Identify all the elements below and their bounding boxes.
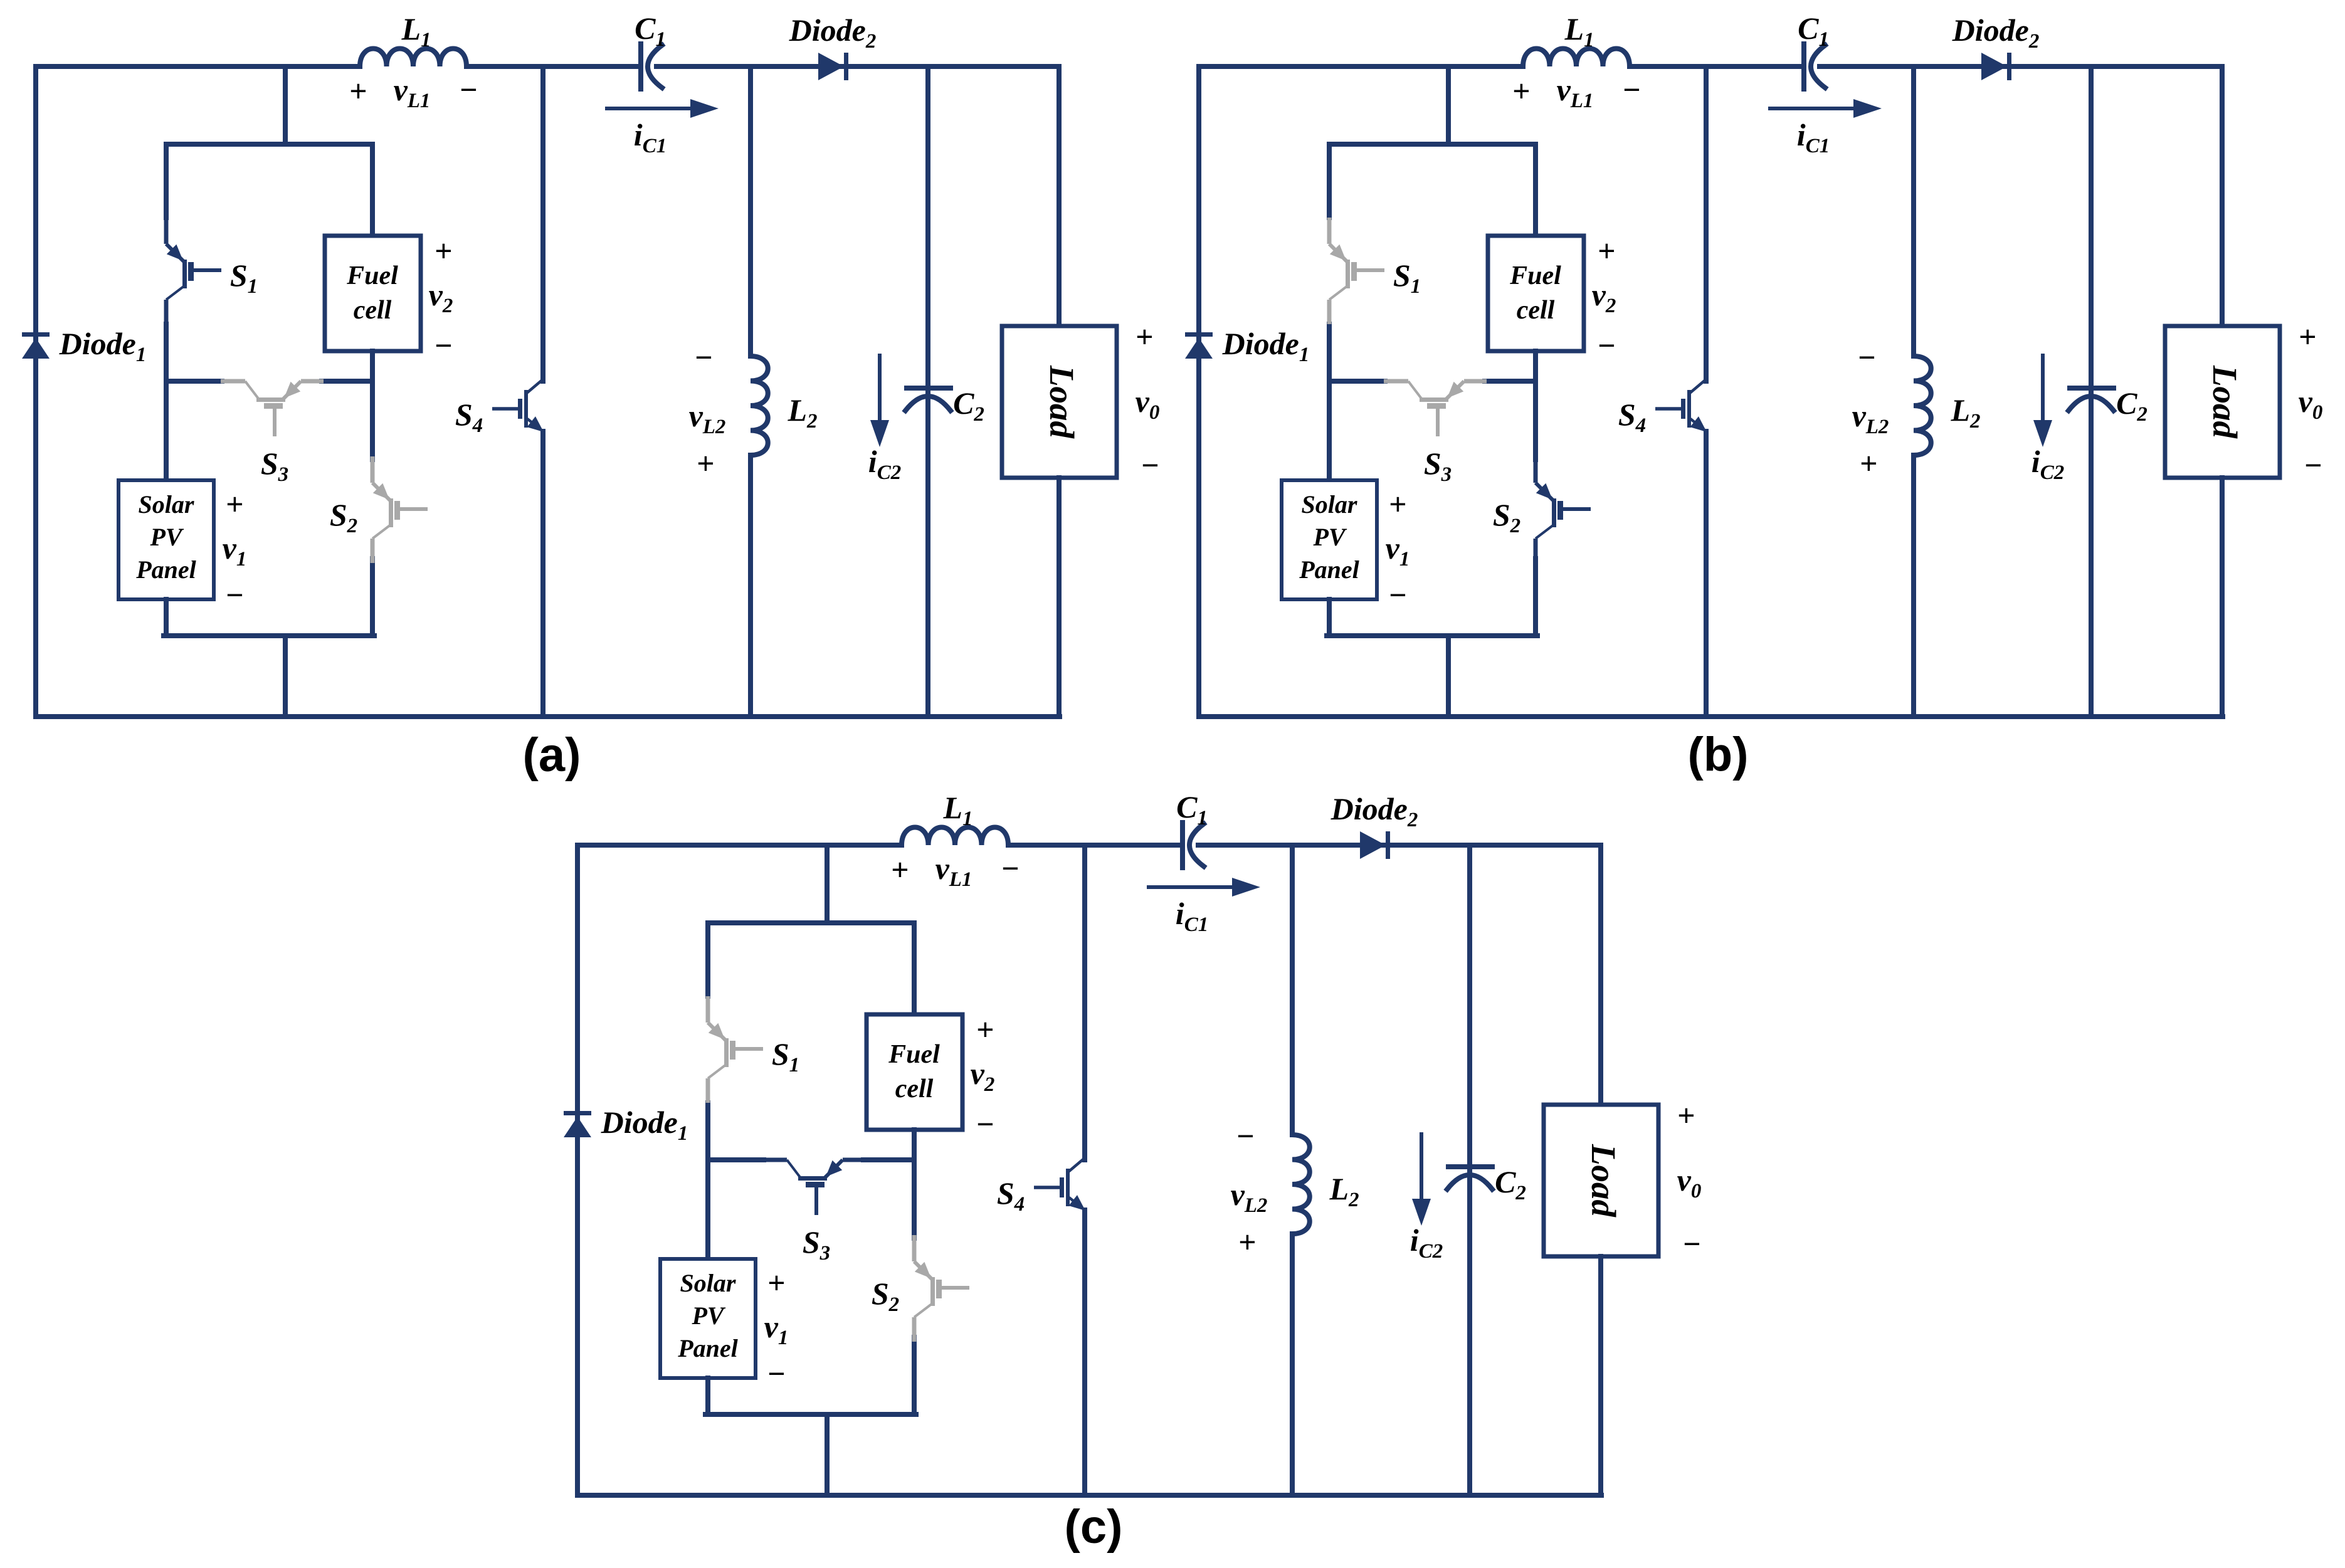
svg-text:+: + <box>1512 73 1531 108</box>
svg-text:PV: PV <box>691 1302 725 1330</box>
svg-text:Load: Load <box>1043 365 1081 439</box>
svg-text:Fuel: Fuel <box>346 261 398 290</box>
svg-text:Solar: Solar <box>1302 490 1357 518</box>
svg-text:+: + <box>435 233 453 268</box>
svg-text:−: − <box>459 72 478 107</box>
svg-text:Diode2: Diode2 <box>1952 13 2040 53</box>
svg-text:+: + <box>1238 1224 1257 1260</box>
svg-text:−: − <box>767 1356 786 1391</box>
svg-text:+: + <box>1389 487 1407 522</box>
svg-text:−: − <box>1236 1118 1255 1154</box>
svg-text:(a): (a) <box>523 729 581 782</box>
svg-text:−: − <box>1597 328 1616 363</box>
svg-text:Panel: Panel <box>135 555 196 584</box>
svg-text:PV: PV <box>1312 523 1347 551</box>
svg-text:+: + <box>1136 319 1154 354</box>
svg-text:Fuel: Fuel <box>888 1040 940 1069</box>
svg-text:cell: cell <box>354 296 392 325</box>
svg-text:Load: Load <box>2206 365 2244 439</box>
svg-text:cell: cell <box>1517 296 1555 325</box>
svg-text:Solar: Solar <box>139 490 194 518</box>
svg-text:+: + <box>1860 446 1878 481</box>
svg-text:−: − <box>694 340 713 375</box>
svg-text:−: − <box>1001 851 1020 886</box>
svg-text:−: − <box>1141 448 1159 483</box>
svg-text:Diode2: Diode2 <box>789 13 877 53</box>
svg-text:−: − <box>225 577 244 613</box>
svg-text:Fuel: Fuel <box>1509 261 1561 290</box>
svg-text:PV: PV <box>149 523 184 551</box>
svg-text:−: − <box>1388 577 1407 613</box>
svg-text:−: − <box>1622 72 1641 107</box>
svg-text:+: + <box>2299 319 2317 354</box>
svg-text:−: − <box>2304 448 2322 483</box>
svg-text:Panel: Panel <box>1299 555 1359 584</box>
svg-text:Diode1: Diode1 <box>59 326 147 366</box>
svg-text:+: + <box>226 487 244 522</box>
svg-text:Diode1: Diode1 <box>601 1105 688 1145</box>
svg-text:(c): (c) <box>1065 1500 1123 1554</box>
svg-text:−: − <box>1857 340 1876 375</box>
svg-text:+: + <box>349 73 367 108</box>
svg-text:Panel: Panel <box>677 1334 738 1362</box>
svg-text:Solar: Solar <box>680 1269 736 1297</box>
svg-text:−: − <box>1682 1226 1701 1261</box>
svg-text:cell: cell <box>895 1075 934 1103</box>
svg-text:Load: Load <box>1584 1144 1623 1218</box>
svg-text:−: − <box>434 328 453 363</box>
svg-text:+: + <box>697 446 715 481</box>
svg-text:−: − <box>976 1107 994 1142</box>
svg-text:+: + <box>767 1265 786 1300</box>
svg-text:+: + <box>1677 1098 1695 1133</box>
svg-text:(b): (b) <box>1687 728 1748 781</box>
svg-text:+: + <box>891 852 909 887</box>
svg-text:Diode2: Diode2 <box>1331 791 1418 831</box>
svg-text:+: + <box>1598 233 1616 268</box>
svg-text:Diode1: Diode1 <box>1222 326 1310 366</box>
svg-text:+: + <box>976 1012 994 1047</box>
